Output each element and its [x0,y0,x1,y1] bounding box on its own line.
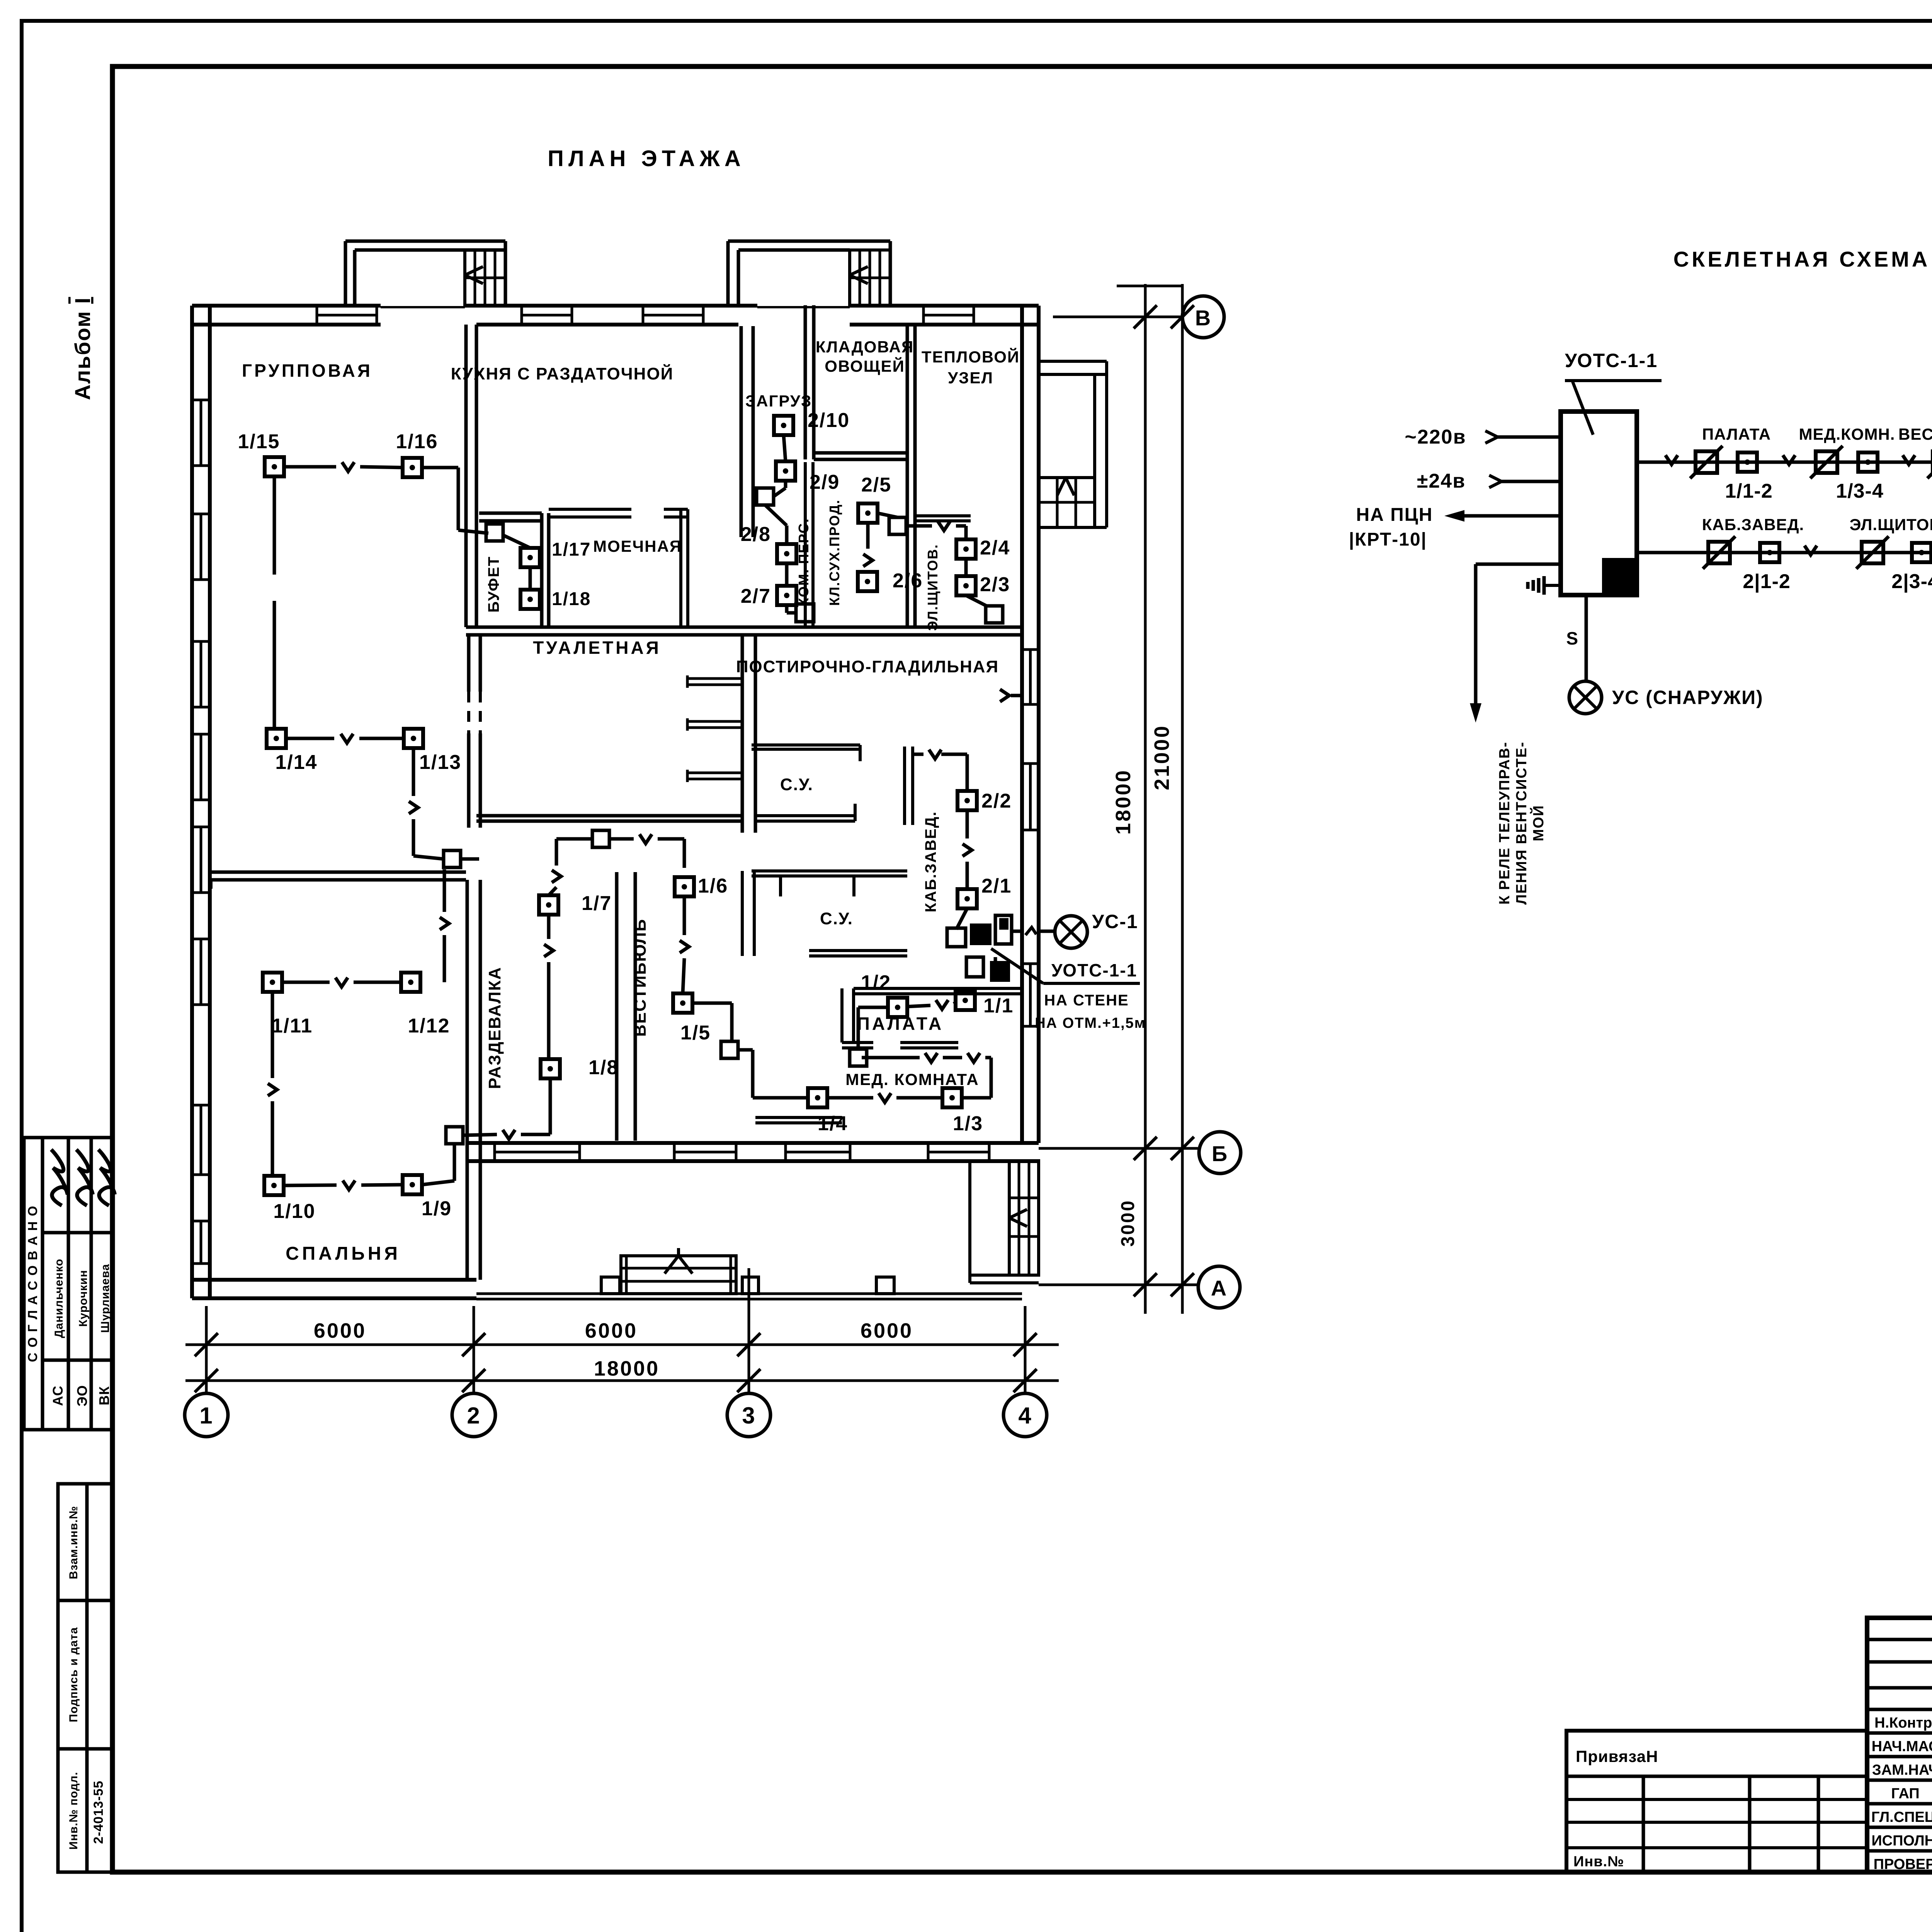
svg-text:Н.Контр.: Н.Контр. [1874,1715,1932,1731]
svg-text:ЭО: ЭО [74,1385,90,1406]
detector 1/4 [808,1088,827,1107]
svg-text:2/5: 2/5 [861,474,891,496]
svg-text:1/11: 1/11 [272,1015,313,1037]
wire junction right [461,857,479,861]
wire to 2/2 [1011,694,1022,697]
detector 2/1 [957,889,977,908]
svg-text:КЛ.СУХ.ПРОД.: КЛ.СУХ.ПРОД. [827,499,842,606]
wire 2/1 to station [956,908,967,929]
svg-text:~220в: ~220в [1405,426,1466,448]
detector 2/6 [858,572,877,591]
wire 1/15 to 1/16 [284,465,336,469]
svg-text:ГРУППОВАЯ: ГРУППОВАЯ [242,361,372,381]
receiving station UOTS-1-1 on plan [947,928,966,947]
loop1 v marks [1665,455,1678,464]
detector 1/18 [520,590,540,609]
svg-text:В: В [1195,306,1211,330]
junction box med [721,1041,738,1058]
svg-text:6000: 6000 [585,1319,638,1342]
detector 2/3 [956,576,976,595]
svg-text:1/7: 1/7 [582,892,612,915]
left wall windows [191,400,194,466]
wire 1/8 to junction [549,1078,552,1134]
top-middle porch stair [850,250,890,306]
svg-text:УЗЕЛ: УЗЕЛ [948,369,993,387]
washroom top partition [549,508,631,511]
axis A circle [1198,1266,1240,1308]
svg-text:УС-1: УС-1 [1092,911,1138,932]
svg-text:УС (СНАРУЖИ): УС (СНАРУЖИ) [1612,687,1764,708]
med room walls [755,1116,842,1119]
med room wire [862,1056,920,1060]
svg-text:МОЕЧНАЯ: МОЕЧНАЯ [593,537,682,555]
svg-text:ВЕСТИБЮЛЬ: ВЕСТИБЮЛЬ [631,918,650,1037]
svg-text:2|1-2: 2|1-2 [1743,570,1791,593]
svg-text:3: 3 [742,1403,755,1429]
axis circles 1-4 [185,1393,228,1437]
detector 1/15 [265,457,284,476]
ground symbol [1544,584,1561,587]
group МЕД.КОМН. 1/3-4 [1816,451,1837,473]
svg-text:ПРОВЕР.: ПРОВЕР. [1874,1856,1932,1872]
detector 1/8 [541,1059,560,1078]
top-left porch stair [465,250,505,306]
svg-text:Альбом I: Альбом I [70,297,95,400]
svg-text:ПАЛАТА: ПАЛАТА [857,1014,944,1034]
svg-text:1/14: 1/14 [275,751,317,774]
junction el room [986,606,1003,623]
junction store [889,517,906,534]
washroom right partition [679,509,682,627]
UOTS unit box [1561,412,1637,595]
detector 2/2 [957,791,977,810]
svg-text:ПЛАН ЭТАЖА: ПЛАН ЭТАЖА [548,146,745,171]
attachment block [1566,1731,1867,1872]
top dim stub [1117,285,1182,287]
detector 1/7 [539,895,558,915]
veranda column pads [601,1277,620,1294]
group ПАЛАТА 1/1-2 [1696,451,1717,473]
toilet left wall upper [467,635,471,692]
svg-text:К РЕЛЕ ТЕЛЕУПРАВ-: К РЕЛЕ ТЕЛЕУПРАВ- [1497,742,1513,905]
right wall windows [1021,650,1024,704]
junction palata [850,1049,867,1066]
detector 2/4 [956,539,976,559]
svg-text:1/15: 1/15 [238,430,280,453]
laundry wire mark [1000,689,1009,702]
svg-text:1: 1 [199,1403,213,1429]
svg-text:Курочкин: Курочкин [77,1270,90,1327]
detector 1/11 [263,973,282,992]
detector 2/7 [777,586,796,605]
axis B line [1039,1147,1198,1150]
small store partitions [804,462,807,627]
detector 1/16 [403,458,422,477]
wire 2/3 down [966,595,986,606]
buffet top wall [479,512,542,515]
top-middle porch walls [726,241,730,306]
group ЭЛ.ЩИТОВ. 2|3-4 [1862,542,1883,563]
wire 1/17 to 1/18 [529,567,532,590]
head office left wall [903,747,906,825]
svg-text:Инв.№ подл.: Инв.№ подл. [67,1772,80,1850]
detector 1/6 [675,877,694,896]
svg-text:АС: АС [50,1385,66,1406]
svg-text:ЛЕНИЯ ВЕНТСИСТЕ-: ЛЕНИЯ ВЕНТСИСТЕ- [1514,742,1530,905]
detector 1/13 [404,729,423,748]
approval signatures [51,1150,68,1206]
svg-text:4: 4 [1018,1403,1032,1429]
wire 2/5 right [878,513,898,517]
svg-text:МЕД.КОМН.: МЕД.КОМН. [1799,425,1895,443]
svg-text:БУФЕТ: БУФЕТ [485,556,502,612]
svg-text:2/10: 2/10 [808,409,850,432]
svg-text:С О Г Л А С О В А Н О: С О Г Л А С О В А Н О [26,1205,40,1362]
svg-text:1/2: 1/2 [861,971,891,994]
wire 1/4 to 1/3 [827,1096,873,1100]
main entrance stair bottom [621,1256,736,1294]
svg-text:2|3-4: 2|3-4 [1891,570,1932,593]
wire junction to 1/7 [556,837,592,841]
svg-text:1/3-4: 1/3-4 [1836,480,1884,502]
inventory stamp table [58,1484,113,1872]
wire 2/8 to 2/7 [785,563,789,586]
title block signature rows [1867,1731,1932,1735]
loop2 v marks [1804,546,1817,555]
svg-text:ОВОЩЕЙ: ОВОЩЕЙ [825,357,905,375]
UOTS black section [1602,558,1637,595]
wire to 1/17 [503,535,530,548]
axis B wall windows [495,1142,580,1145]
svg-text:КАБ.ЗАВЕД.: КАБ.ЗАВЕД. [922,811,939,912]
svg-text:А: А [1211,1276,1227,1300]
buffet right wall [540,513,544,627]
detector 1/10 [264,1176,284,1195]
svg-text:КАБ.ЗАВЕД.: КАБ.ЗАВЕД. [1702,515,1804,534]
detector 1/14 [267,729,286,748]
svg-text:ЭЛ.ЩИТОВ.: ЭЛ.ЩИТОВ. [925,544,940,631]
pantry bottom wall [814,451,907,455]
detector 2/10 [774,416,793,435]
svg-text:КОМ. ПЕРС.: КОМ. ПЕРС. [796,518,811,607]
svg-text:ТЕПЛОВОЙ: ТЕПЛОВОЙ [922,347,1020,366]
axis line 3 through porch [748,1268,750,1306]
svg-text:С.У.: С.У. [820,909,853,928]
svg-text:1/8: 1/8 [588,1056,619,1079]
exterior wall left [190,306,194,1298]
wire 2/10 to 2/9 [784,435,786,461]
wire 2/7 junction [785,605,789,613]
svg-text:ПАЛАТА: ПАЛАТА [1702,425,1771,443]
wire 1/11 to 1/12 [282,981,330,984]
wire to 1/4 [738,1048,753,1052]
wire 2/2 to 2/1 [966,810,969,838]
wire 2/9 to 2/8 [784,481,787,488]
svg-text:НА ОТМ.+1,5м: НА ОТМ.+1,5м [1035,1015,1146,1031]
svg-text:2/1: 2/1 [981,875,1012,897]
bedroom bottom exterior wall [192,1278,476,1282]
dimension line row2 [185,1379,1059,1382]
pantry left wall [804,305,807,459]
svg-text:СКЕЛЕТНАЯ СХЕМА СЕТИ ПОЖАРНОЙ: СКЕЛЕТНАЯ СХЕМА СЕТИ ПОЖАРНОЙ СИГНАЛИЗАЦ… [1673,247,1932,271]
svg-text:2/2: 2/2 [981,790,1012,812]
detector 1/1 [956,991,975,1010]
station leader line [991,949,1043,983]
svg-text:1/1: 1/1 [983,995,1014,1017]
top wall windows [317,304,377,307]
junction bedroom top [446,1127,463,1144]
title block upper row lines [1867,1638,1932,1641]
alarm loop 1 wire [1637,461,1932,464]
axis V line [1053,316,1182,318]
dimension line row1 [185,1344,1059,1346]
sounder US-1 on plan [1055,916,1087,948]
wire junction right [906,524,932,528]
svg-text:1/9: 1/9 [422,1197,452,1220]
svg-text:3000: 3000 [1118,1199,1138,1247]
svg-text:С.У.: С.У. [780,775,813,794]
svg-text:Данильченко: Данильченко [53,1259,65,1338]
palata walls [840,988,844,1043]
svg-text:Подпись и дата: Подпись и дата [67,1627,80,1722]
svg-text:Взам.инв.№: Взам.инв.№ [67,1506,80,1579]
svg-text:2/4: 2/4 [980,537,1010,559]
exterior wall right [1020,306,1024,1143]
wire station to sounder [1012,930,1024,933]
svg-text:УОТС-1-1: УОТС-1-1 [1051,960,1137,980]
bedroom right wall [466,880,469,1280]
wire 1/3 right up [962,1096,991,1100]
svg-text:2/6: 2/6 [893,570,923,592]
wire 1/14 to 1/13 [286,737,334,740]
veranda bottom edge [476,1293,1022,1295]
right dimension verticals [1144,284,1147,1314]
svg-text:УОТС-1-1: УОТС-1-1 [1565,350,1658,371]
axis A line [1039,1284,1198,1286]
loading corridor left wall [740,326,743,537]
group КАБ.ЗАВЕД. 2|1-2 [1708,542,1730,563]
toilet room bottom wall [476,814,742,818]
svg-text:2/9: 2/9 [810,471,840,493]
wire junction up to 1/2 [857,1007,860,1049]
detector 2/8 [777,544,796,563]
svg-text:1/16: 1/16 [396,430,438,453]
junction corridor [757,488,774,505]
detector 2/9 [776,461,795,481]
svg-text:СПАЛЬНЯ: СПАЛЬНЯ [286,1243,401,1264]
svg-text:18000: 18000 [594,1357,660,1380]
svg-text:21000: 21000 [1150,724,1173,790]
svg-text:S: S [1566,628,1579,648]
axis V circle [1182,296,1224,338]
svg-text:Шурлиаева: Шурлиаева [99,1264,112,1333]
svg-text:МЕД. КОМНАТА: МЕД. КОМНАТА [845,1070,979,1088]
detector 1/12 [401,973,420,992]
wire 1/15 down [273,476,276,575]
svg-text:1/17: 1/17 [552,539,591,560]
wire 1/16 down to buffet [422,466,458,469]
wire 1/12 up [443,935,446,982]
svg-text:6000: 6000 [314,1319,366,1342]
svg-text:НА ПЦН: НА ПЦН [1356,505,1433,525]
S wire [1585,596,1588,681]
lower WC walls [752,869,907,872]
wire 2/5 down [866,523,870,549]
svg-text:ВК: ВК [96,1386,112,1405]
title block outline [1867,1618,1932,1872]
upper WC walls [752,743,860,747]
detector 1/2 [888,998,907,1017]
right side exterior stair [1039,360,1107,363]
svg-text:МОЙ: МОЙ [1529,805,1547,842]
approval stamp table [24,1138,112,1430]
detector 2/5 [858,503,878,523]
svg-text:ЗАГРУЗ.: ЗАГРУЗ. [745,392,817,410]
svg-text:2: 2 [467,1403,480,1429]
svg-text:±24в: ±24в [1417,470,1466,492]
alarm loop 2 wire [1637,551,1932,554]
svg-text:|КРТ-10|: |КРТ-10| [1349,529,1427,550]
wire 1/8 path [547,915,551,939]
top-left porch walls [344,241,347,306]
svg-text:ВЕСТИБЮЛЬ: ВЕСТИБЮЛЬ [1898,425,1932,443]
wire 1/13 down [412,748,415,796]
wire 1/5 right [692,1002,732,1005]
group room bottom wall [210,871,466,874]
wall group room / kitchen [464,325,468,627]
axis extension lines bottom [205,1306,208,1393]
detector 1/3 [942,1088,962,1107]
svg-text:1/10: 1/10 [273,1200,315,1223]
svg-text:ТУАЛЕТНАЯ: ТУАЛЕТНАЯ [533,638,661,658]
toilet stalls [687,677,742,680]
svg-text:1/6: 1/6 [698,875,728,897]
heating room left wall [906,325,909,627]
junction box hall top [444,850,461,867]
wire 1/2 to 1/1 [907,1005,930,1007]
svg-text:КУХНЯ С РАЗДАТОЧНОЙ: КУХНЯ С РАЗДАТОЧНОЙ [451,364,674,383]
wire 1/6 to 1/5 [683,896,686,935]
svg-text:1/3: 1/3 [953,1112,983,1135]
wire 2/4 2/3 [964,559,968,576]
kitchen bottom wall [466,626,1022,629]
wire 2/4 up [964,526,968,539]
vestibule left wall [615,872,619,1141]
axis B circle [1199,1132,1241,1173]
svg-text:НАЧ.МАС: НАЧ.МАС [1872,1738,1932,1755]
detector 1/5 [673,993,692,1013]
svg-text:РАЗДЕВАЛКА: РАЗДЕВАЛКА [485,967,504,1089]
svg-text:6000: 6000 [861,1319,913,1342]
bottom-right stairwell [1009,1161,1039,1275]
wire junction to 1/6 [609,837,634,841]
svg-text:1/13: 1/13 [419,751,461,774]
wire 1/10 up to 1/11 [271,1101,274,1176]
svg-text:1/12: 1/12 [408,1015,450,1037]
svg-text:1/1-2: 1/1-2 [1725,480,1773,502]
junction corridor bottom [796,604,814,622]
svg-text:1/18: 1/18 [552,589,591,609]
wire junction to 1/9 [453,1144,456,1181]
svg-text:КЛАДОВАЯ: КЛАДОВАЯ [816,338,914,356]
svg-text:Б: Б [1212,1141,1228,1166]
junction box buffet [486,524,503,541]
svg-text:НА СТЕНЕ: НА СТЕНЕ [1044,992,1129,1009]
svg-text:ИСПОЛН.: ИСПОЛН. [1871,1833,1932,1849]
detector 1/17 [520,548,540,567]
svg-text:ПОСТИРОЧНО-ГЛАДИЛЬНАЯ: ПОСТИРОЧНО-ГЛАДИЛЬНАЯ [736,657,999,676]
svg-text:2/8: 2/8 [741,523,771,546]
wire 1/9 to 1/10 [361,1185,403,1185]
svg-text:2/3: 2/3 [980,573,1010,596]
svg-text:2-4013-55: 2-4013-55 [91,1781,106,1844]
axis B interior bottom wall [466,1141,1039,1145]
svg-text:ЗАМ.НАЧ: ЗАМ.НАЧ [1872,1762,1932,1778]
svg-text:1/5: 1/5 [680,1022,711,1044]
central wall toilet/laundry [741,635,744,833]
svg-text:2/7: 2/7 [741,585,771,607]
detector 1/9 [403,1175,422,1194]
svg-text:ГАП: ГАП [1891,1786,1919,1802]
telecontrol line [1476,563,1561,566]
exterior wall top [192,304,381,308]
svg-text:ГЛ.СПЕЦ.: ГЛ.СПЕЦ. [1871,1809,1932,1825]
svg-text:ЭЛ.ЩИТОВ.: ЭЛ.ЩИТОВ. [1850,515,1932,534]
svg-text:ПривязаН: ПривязаН [1576,1747,1658,1765]
sounder symbol [1569,681,1602,714]
svg-text:1/4: 1/4 [818,1112,848,1135]
svg-text:18000: 18000 [1112,769,1135,835]
junction box toilet wall [592,830,609,847]
svg-text:Инв.№: Инв.№ [1573,1854,1624,1870]
